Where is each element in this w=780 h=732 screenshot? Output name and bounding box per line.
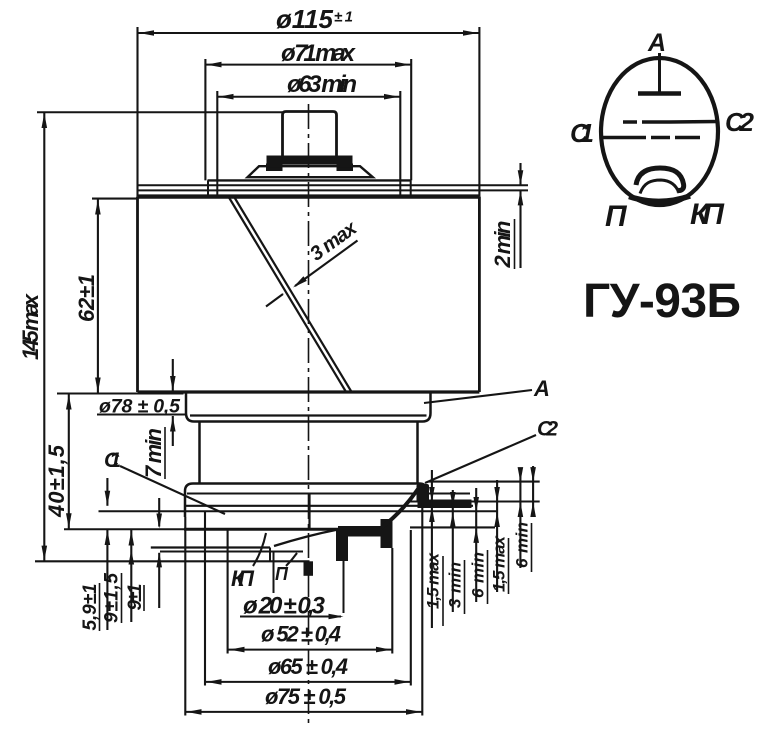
dim line 40 <box>68 394 70 530</box>
leader 3max lower <box>266 294 283 307</box>
heater ring bottom and 145 extension <box>35 560 310 562</box>
arrow 3max lower <box>271 293 285 304</box>
arrow 62 up <box>95 200 101 215</box>
svg-text:62±1: 62±1 <box>74 274 99 322</box>
flange rim vertical a <box>207 180 209 195</box>
stack arrows col5 <box>518 467 524 482</box>
stack arrows col3 <box>473 497 479 512</box>
underline 9b <box>143 585 145 611</box>
arrow o71 left <box>207 62 222 68</box>
stack underline 1 <box>442 556 444 626</box>
flange rim vertical b <box>216 180 218 195</box>
stack shaft 4 <box>496 480 498 592</box>
arrow 7min up <box>170 417 176 432</box>
stack arrows col6 <box>530 467 536 482</box>
svg-text:6 min: 6 min <box>468 552 487 598</box>
underline 9a <box>121 573 123 623</box>
body seam weld line 1 <box>229 198 346 392</box>
heater pin stud <box>304 561 314 576</box>
flange rim vertical d <box>410 180 412 195</box>
base bottom thick <box>184 528 350 531</box>
svg-text:9±1: 9±1 <box>125 584 146 611</box>
svg-text:ø75 ± 0,5: ø75 ± 0,5 <box>265 684 347 709</box>
leader A <box>424 390 532 403</box>
ext o52 left <box>227 529 229 653</box>
ext o71 right <box>410 59 412 180</box>
arrow o63 right <box>384 94 399 100</box>
ext o52 right <box>391 548 393 654</box>
symbol bottom thickening <box>629 196 690 201</box>
envelope bottom curve left <box>274 530 338 547</box>
svg-text:А: А <box>533 376 550 401</box>
dim 5.9 shaft lower <box>106 530 108 631</box>
body left edge <box>136 197 139 392</box>
cap wedge right <box>337 164 354 172</box>
symbol anode lead <box>658 53 661 92</box>
dim 7min upper shaft <box>172 359 174 391</box>
stack underline 4 <box>508 538 510 594</box>
heater ring step vertical <box>269 548 271 562</box>
stack underline 2 <box>464 560 466 614</box>
svg-text:ø65 ± 0,4: ø65 ± 0,4 <box>268 654 348 679</box>
stack underline 5 <box>531 523 533 572</box>
arrow 9b up <box>156 552 162 567</box>
svg-text:ø 52 ± 0,4: ø 52 ± 0,4 <box>261 622 341 647</box>
arrow o75 left <box>187 709 202 715</box>
grid1 ring top <box>185 484 427 518</box>
anode top cap <box>283 112 337 158</box>
svg-text:КП: КП <box>690 198 725 231</box>
envelope bottom curve right <box>381 489 418 528</box>
svg-text:А: А <box>647 29 666 57</box>
dim 9a shaft <box>130 530 132 622</box>
flange ring line 3 <box>138 189 529 191</box>
symbol grid2 lead <box>670 120 718 124</box>
underline o78 <box>97 414 186 416</box>
145max top extension line <box>37 111 284 113</box>
arrow 9b down <box>156 514 162 529</box>
cap wedge left <box>266 164 283 172</box>
svg-text:5,9±1: 5,9±1 <box>80 584 101 631</box>
svg-text:6 min: 6 min <box>512 522 531 568</box>
dim line o75 <box>185 711 422 713</box>
exhaust tip left wall <box>336 528 348 561</box>
svg-text:7 min: 7 min <box>141 428 166 478</box>
dim 2min upper shaft <box>519 163 521 185</box>
svg-text:ø78 ± 0,5: ø78 ± 0,5 <box>99 396 181 418</box>
symbol grid1 lead <box>601 136 646 140</box>
base line 2 <box>99 510 498 512</box>
svg-text:9±1,5: 9±1,5 <box>102 573 123 623</box>
anode ring o78 <box>186 392 431 422</box>
ext 62 top <box>92 198 138 200</box>
flange rim vertical c <box>399 180 401 195</box>
underline 2min <box>514 219 516 269</box>
symbol cathode arc <box>636 168 684 190</box>
dim line o63 <box>217 96 400 98</box>
stack ext line second <box>410 500 540 502</box>
symbol grid1 dashes <box>651 136 670 140</box>
underline 7min <box>164 427 166 479</box>
svg-text:ø115: ø115 <box>276 4 334 34</box>
tip left extension <box>273 552 275 593</box>
stack arrows col4 <box>494 487 500 502</box>
symbol anode bar <box>638 91 681 96</box>
ring inner line <box>187 493 470 495</box>
grid2 ring contact bar <box>418 500 472 509</box>
arrow 7min down <box>170 376 176 391</box>
stack shaft 1 <box>431 470 433 628</box>
leader C2 <box>425 435 536 483</box>
arrow o63 left <box>219 94 234 100</box>
dim 9b shaft upper <box>158 498 160 527</box>
symbol grid2 dashes <box>623 120 637 124</box>
leader P <box>286 553 297 566</box>
dim line 145max <box>43 112 45 561</box>
anode ring inner line <box>190 414 427 416</box>
body seam weld line 2 <box>235 198 352 392</box>
dim line o52 <box>229 649 393 651</box>
exhaust tip top bar <box>338 526 390 537</box>
arrow o65 right <box>395 679 410 685</box>
cap dome <box>248 166 373 177</box>
ext o75 right <box>421 502 423 716</box>
arrow o65 left <box>207 679 222 685</box>
svg-text:1,5 max: 1,5 max <box>423 551 442 609</box>
exhaust tip right wall <box>381 519 393 548</box>
stack arrows col1 <box>429 487 435 502</box>
TUBE SYMBOL <box>601 53 718 205</box>
ext 62-40 shared <box>57 392 184 394</box>
pinch inner vertical <box>308 494 310 530</box>
svg-text:П: П <box>605 200 628 233</box>
ext o71 left <box>204 59 206 180</box>
stack underline 3 <box>487 550 489 604</box>
grid2 contact blob <box>417 484 430 503</box>
arrow 9a up1 <box>129 531 135 546</box>
dim 5.9 shaft upper <box>106 478 108 506</box>
cathode ring bottom <box>151 546 270 548</box>
svg-text:КП: КП <box>231 566 255 591</box>
centerline <box>308 104 310 726</box>
leader KP <box>253 533 266 566</box>
base line 1 <box>184 505 473 507</box>
ext o75 left <box>184 517 186 716</box>
arrow o75 right <box>406 709 421 715</box>
arrow 2min up <box>518 190 524 205</box>
svg-text:ГУ-93Б: ГУ-93Б <box>583 275 741 328</box>
arrow 3max upper <box>293 276 307 287</box>
extension 40 bottom <box>64 528 186 530</box>
arrow o52 right <box>376 647 391 653</box>
dim line o71 <box>205 64 411 66</box>
stack ext line top <box>429 481 540 483</box>
arrow o20 right <box>329 614 344 620</box>
leader C1 <box>120 466 225 514</box>
flange ring line 1 <box>208 179 412 181</box>
svg-text:ø 20 ± 0,3: ø 20 ± 0,3 <box>243 593 326 620</box>
tip right extension <box>343 530 345 613</box>
symbol envelope ellipse <box>601 58 718 205</box>
stack shaft 2 <box>452 490 454 612</box>
dim 7min shaft <box>172 416 174 446</box>
dim 9b shaft lower <box>158 553 160 608</box>
arrow o115 right <box>463 30 478 36</box>
body bottom edge <box>138 390 480 393</box>
dim line o65 <box>205 681 411 683</box>
ext o63 left <box>216 91 218 180</box>
svg-text:С1: С1 <box>570 118 594 148</box>
arrow o71 right <box>395 62 410 68</box>
svg-text:П: П <box>275 564 289 584</box>
arrow 2min down <box>518 170 524 185</box>
arrow 5.9 up <box>105 530 111 545</box>
arrow 40 up <box>66 395 72 410</box>
arrow o115 left <box>139 30 154 36</box>
underline 5.9 <box>99 583 101 631</box>
symbol heater arc <box>640 180 679 194</box>
body top edge <box>138 194 480 198</box>
arrow 40 down <box>66 513 72 528</box>
dim 2min lower shaft <box>519 190 521 268</box>
svg-text:145 max: 145 max <box>18 293 43 360</box>
svg-text:С1: С1 <box>104 449 121 472</box>
arrow 145 down <box>42 546 48 561</box>
arrow 9a up2 <box>129 550 135 565</box>
ext o115 left <box>136 27 138 197</box>
stack shaft 5 <box>519 468 521 568</box>
ext o63 right <box>399 91 401 180</box>
mid cylinder left edge <box>198 422 201 484</box>
stack arrows col2 <box>450 492 456 507</box>
svg-text:40±1,5: 40±1,5 <box>44 444 69 518</box>
ext o115 right <box>478 27 480 197</box>
leader 3max <box>295 241 358 287</box>
stack shaft 6 <box>532 466 534 515</box>
svg-text:ø63 min: ø63 min <box>287 71 357 98</box>
arrow 5.9 down <box>105 491 111 506</box>
flange ring line 2 <box>138 184 529 186</box>
dim line 62 <box>97 199 99 394</box>
stack shaft 3 <box>475 488 477 602</box>
arrow 145 up <box>42 113 48 128</box>
mid cylinder right edge <box>416 422 419 484</box>
arrow 62 down <box>95 378 101 393</box>
ext o65 right <box>410 530 412 686</box>
stack ext line third <box>410 526 495 528</box>
svg-text:3 min: 3 min <box>445 562 464 608</box>
cathode ring bottom 2 <box>160 551 303 553</box>
svg-text:1,5 max: 1,5 max <box>489 534 508 592</box>
body right edge <box>478 197 481 392</box>
svg-text:С2: С2 <box>537 418 558 441</box>
ext o65 left <box>204 511 206 685</box>
underline o20 with arrow line <box>240 616 341 618</box>
svg-text:2 min: 2 min <box>490 221 515 269</box>
arrow o52 left <box>230 647 245 653</box>
svg-text:±1: ±1 <box>334 9 353 26</box>
svg-text:ø 71 max: ø 71 max <box>281 40 357 67</box>
dim line o115 <box>138 32 480 34</box>
cap contact ring (black band) <box>267 156 353 165</box>
svg-text:С2: С2 <box>725 107 755 137</box>
